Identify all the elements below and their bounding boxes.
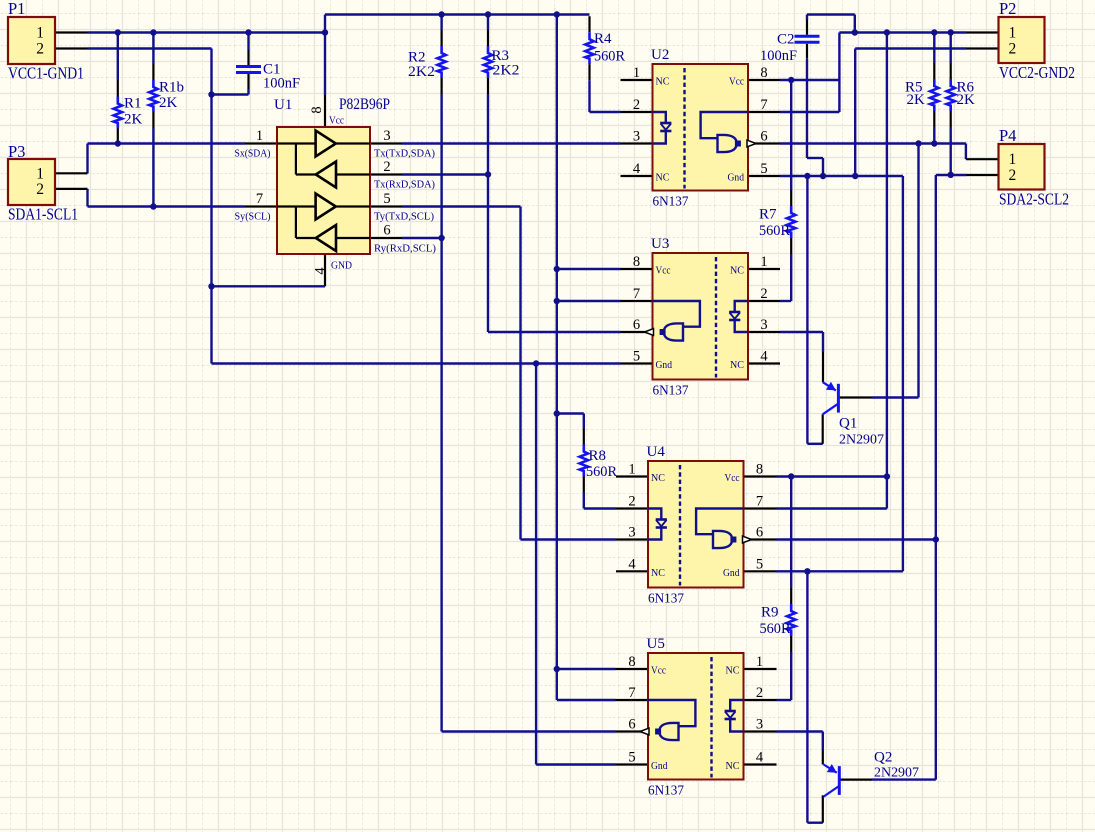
connector P2 — [999, 17, 1045, 63]
svg-text:2: 2 — [383, 159, 390, 175]
pin U5.3 stub — [745, 730, 777, 732]
wire U4.8 row — [777, 475, 887, 477]
wire U1.2 to R3 — [402, 173, 488, 175]
wire U1 pin1 row SDA1 — [88, 142, 246, 144]
pin Q2 collector stub — [822, 795, 824, 822]
junction — [554, 410, 560, 416]
wire GND2 spine upper — [806, 176, 808, 444]
junction — [788, 77, 794, 83]
capacitor C1 — [247, 50, 249, 65]
svg-text:2: 2 — [628, 494, 635, 510]
junction — [485, 11, 491, 17]
svg-text:VCC1-GND1: VCC1-GND1 — [8, 64, 84, 83]
wire R7 bottom to U3.2 — [790, 254, 792, 301]
gate in U3 — [653, 301, 700, 327]
svg-text:8: 8 — [760, 65, 767, 81]
pin U1.3 stub — [370, 142, 402, 144]
svg-text:2: 2 — [756, 685, 763, 701]
wire Q2 base link — [872, 778, 936, 780]
junction — [933, 536, 939, 542]
pin U1.5 stub — [370, 205, 402, 207]
svg-text:2K: 2K — [957, 92, 976, 108]
resistor R2 — [441, 30, 443, 46]
svg-text:Sx(SDA): Sx(SDA) — [235, 148, 271, 160]
svg-text:5: 5 — [628, 750, 635, 766]
ic U1 P82B96P body — [277, 127, 370, 254]
pin U5.2 stub — [745, 699, 777, 701]
wire U3.3 row to Q1 emitter — [780, 331, 823, 333]
wire SDA2 horizontal to P4 — [780, 142, 966, 144]
pin U2.7 stub — [748, 111, 780, 113]
wire to U5.7 row — [557, 699, 616, 701]
wire R8 top — [583, 414, 585, 429]
connector P4 — [999, 144, 1045, 190]
wire GND2 to U4.5 — [902, 176, 904, 571]
svg-text:4: 4 — [313, 267, 329, 275]
svg-text:2K2: 2K2 — [493, 63, 520, 79]
svg-text:2: 2 — [1009, 41, 1017, 58]
junction — [554, 298, 560, 304]
junction — [150, 203, 156, 209]
svg-text:Gnd: Gnd — [723, 567, 740, 579]
svg-text:6N137: 6N137 — [648, 592, 684, 607]
svg-text:4: 4 — [628, 557, 636, 573]
svg-text:5: 5 — [383, 191, 390, 207]
svg-text:1: 1 — [256, 128, 263, 144]
wire VCC2 long drop — [886, 33, 888, 509]
buffer C in U1 — [277, 205, 316, 207]
wire top VCC1 bus — [325, 13, 590, 15]
pin U1.2 stub — [370, 173, 402, 175]
svg-text:2: 2 — [760, 286, 767, 302]
svg-text:6N137: 6N137 — [653, 384, 689, 399]
pin U4.8 stub — [745, 475, 777, 477]
wire VCC2 drop to U2 — [838, 33, 840, 113]
wire GND2 drop — [854, 49, 856, 177]
pin U4.4 stub — [616, 570, 648, 572]
svg-text:3: 3 — [383, 128, 390, 144]
svg-text:R7: R7 — [759, 207, 777, 223]
svg-text:P4: P4 — [999, 126, 1016, 145]
svg-text:NC: NC — [656, 172, 670, 184]
pin U4.2 stub — [616, 507, 648, 509]
wire P3 pin2 riser — [86, 189, 88, 207]
led in U5 — [730, 700, 743, 711]
wire GND1 left vertical — [210, 49, 212, 364]
pin U4.5 stub — [745, 570, 777, 572]
pin U2.4 stub — [621, 175, 653, 177]
svg-text:Gnd: Gnd — [728, 172, 745, 184]
junction — [485, 171, 491, 177]
pin U5.5 stub — [616, 763, 649, 765]
svg-text:3: 3 — [633, 129, 640, 145]
svg-text:R1: R1 — [124, 96, 142, 112]
pin U5.4 stub — [745, 763, 777, 765]
svg-text:2K: 2K — [124, 112, 143, 128]
svg-text:560R: 560R — [586, 464, 617, 480]
pin U3.5 stub — [621, 362, 653, 364]
svg-text:1: 1 — [633, 65, 640, 81]
optocoupler U3 body — [653, 253, 749, 380]
wire P2.1 riser — [854, 15, 856, 33]
svg-text:C2: C2 — [777, 32, 795, 48]
wire SCL2 drop to Q2 base — [935, 175, 937, 780]
junction — [931, 140, 937, 146]
svg-text:6N137: 6N137 — [653, 195, 689, 210]
svg-text:Ty(TxD,SCL): Ty(TxD,SCL) — [374, 211, 434, 223]
wire U2.7 row — [780, 111, 839, 113]
separator dashed line U3 — [715, 257, 717, 378]
connector P3 — [8, 159, 55, 205]
led in U2 — [653, 112, 666, 123]
junction — [115, 140, 121, 146]
junction — [931, 29, 937, 35]
svg-text:6: 6 — [383, 223, 390, 239]
svg-text:U4: U4 — [647, 444, 666, 460]
svg-text:Vcc: Vcc — [329, 115, 344, 127]
junction — [533, 360, 539, 366]
pin U3.8 stub — [621, 268, 653, 270]
wire Q1 base link — [872, 396, 919, 398]
svg-text:Vcc: Vcc — [656, 265, 671, 277]
pin Q2 base stub — [839, 778, 872, 780]
resistor R4 — [588, 16, 590, 32]
pin U2.3 stub — [621, 142, 653, 144]
resistor R6 — [950, 63, 952, 79]
wire C1 column — [247, 33, 249, 51]
pin U2.6 stub — [748, 142, 780, 144]
junction — [852, 173, 858, 179]
svg-text:VCC2-GND2: VCC2-GND2 — [999, 63, 1075, 82]
wire U3.8 row — [557, 268, 621, 270]
open collector triangle U3 — [645, 329, 654, 336]
resistor R3 — [487, 30, 489, 46]
svg-text:1: 1 — [628, 462, 635, 478]
pin U1.1 stub — [245, 142, 277, 144]
junction — [948, 29, 954, 35]
svg-text:R9: R9 — [761, 605, 779, 621]
svg-text:U1: U1 — [274, 97, 292, 113]
open collector triangle U2 — [747, 140, 756, 147]
pin U2.1 stub — [621, 79, 653, 81]
svg-text:Tx(TxD,SDA): Tx(TxD,SDA) — [374, 148, 435, 160]
svg-text:5: 5 — [760, 161, 767, 177]
svg-text:2: 2 — [1009, 167, 1017, 184]
junction — [804, 568, 810, 574]
pin U5.6 stub — [616, 730, 649, 732]
wire U5.8 row — [557, 668, 616, 670]
pin U1.4 GND stub — [324, 254, 326, 286]
svg-text:1: 1 — [36, 165, 44, 182]
svg-text:NC: NC — [730, 265, 744, 277]
junction — [115, 29, 121, 35]
separator dashed line U4 — [679, 465, 681, 586]
wire U1.5 vertical to U4.3 — [519, 207, 521, 540]
led in U3 — [735, 301, 748, 312]
svg-text:SDA2-SCL2: SDA2-SCL2 — [999, 190, 1069, 209]
pin P1.2 stub — [55, 47, 88, 49]
junction — [245, 29, 251, 35]
svg-text:NC: NC — [726, 665, 740, 677]
svg-text:5: 5 — [756, 557, 763, 573]
svg-text:8: 8 — [633, 254, 640, 270]
pin P4.1 stub — [966, 158, 999, 160]
wire Q1 base riser — [917, 144, 919, 398]
svg-text:U5: U5 — [647, 636, 665, 652]
svg-text:P3: P3 — [8, 142, 25, 161]
pin U4.7 stub — [745, 507, 777, 509]
wire U1.6 to R2 column — [402, 237, 442, 239]
pin U2.5 stub — [748, 175, 780, 177]
junction — [820, 173, 826, 179]
wire GND1 rail — [212, 362, 621, 364]
wire R7 column — [790, 80, 792, 190]
gate in U2 — [701, 112, 748, 138]
pin P2.2 stub — [967, 47, 999, 49]
svg-text:1: 1 — [1009, 151, 1017, 168]
pin Q1 base stub — [838, 396, 872, 398]
resistor R6 column — [950, 33, 952, 64]
svg-text:6N137: 6N137 — [648, 784, 684, 799]
optocoupler U2 body — [653, 64, 749, 191]
svg-text:P82B96P: P82B96P — [339, 96, 390, 113]
junction — [438, 11, 444, 17]
svg-text:Q1: Q1 — [839, 416, 857, 432]
junction — [554, 11, 560, 17]
wire P4.1 jog — [965, 144, 967, 160]
wire U2.8 row — [780, 79, 839, 81]
svg-text:Gnd: Gnd — [656, 359, 673, 371]
resistor R5 — [933, 63, 935, 79]
svg-text:NC: NC — [730, 359, 744, 371]
svg-text:R1b: R1b — [159, 80, 184, 96]
junction — [852, 29, 858, 35]
wire P2.2 row GND2 — [855, 47, 966, 49]
separator dashed line U5 — [710, 657, 712, 778]
svg-text:2K: 2K — [159, 95, 178, 111]
pin U5.8 stub — [616, 668, 649, 670]
resistor R1 column — [117, 33, 119, 81]
pin P1.1 stub — [55, 31, 88, 33]
svg-text:8: 8 — [628, 654, 635, 670]
svg-text:4: 4 — [633, 161, 641, 177]
wire R3 to U3.6 row — [488, 331, 621, 333]
optocoupler U4 body — [648, 461, 744, 588]
gate in U5 — [648, 700, 695, 726]
wire C1 bottom link — [212, 93, 249, 95]
svg-text:8: 8 — [309, 106, 325, 113]
separator dashed line U2 — [683, 68, 685, 189]
svg-text:P1: P1 — [8, 0, 25, 18]
wire U1 GND link — [212, 285, 326, 287]
wire GND2 rail — [780, 175, 903, 177]
wire VCC1 long vertical — [556, 15, 558, 701]
svg-text:4: 4 — [760, 349, 768, 365]
wire C2 column top — [806, 15, 808, 21]
pin U5.1 stub — [745, 668, 777, 670]
svg-text:R8: R8 — [589, 448, 607, 464]
svg-text:Sy(SCL): Sy(SCL) — [235, 211, 271, 223]
resistor R1b — [152, 64, 154, 80]
wire U1 pin7 row SCL1 — [88, 205, 246, 207]
svg-text:2N2907: 2N2907 — [874, 766, 919, 781]
pin Q2 emitter stub — [822, 750, 824, 765]
svg-text:Vcc: Vcc — [725, 472, 740, 484]
capacitor C2 — [806, 20, 808, 35]
svg-text:NC: NC — [651, 472, 665, 484]
wire R4 bottom — [588, 80, 590, 112]
svg-text:2N2907: 2N2907 — [839, 433, 884, 448]
svg-text:1: 1 — [1009, 25, 1017, 42]
wire to U5.6 row — [442, 730, 616, 732]
pin U3.2 stub — [748, 300, 780, 302]
svg-text:1: 1 — [760, 254, 767, 270]
pin U3.1 stub — [748, 268, 780, 270]
svg-text:7: 7 — [756, 494, 763, 510]
resistor R1b column — [152, 33, 154, 65]
junction — [438, 235, 444, 241]
pin U1.6 stub — [370, 237, 402, 239]
svg-text:2K2: 2K2 — [408, 64, 435, 80]
svg-text:6: 6 — [633, 317, 640, 333]
buffer B in U1 — [316, 162, 336, 188]
junction — [948, 172, 954, 178]
pin U3.3 stub — [748, 331, 780, 333]
junction — [150, 29, 156, 35]
transistor Q2 2N2907 — [838, 766, 841, 795]
wire P3 pin1 riser — [86, 144, 88, 174]
pin P4.2 stub — [967, 174, 999, 176]
svg-text:7: 7 — [760, 97, 767, 113]
pin Q1 emitter stub — [822, 352, 824, 382]
svg-text:U2: U2 — [651, 47, 669, 63]
junction — [788, 473, 794, 479]
wire C2 jog to GND2 rail — [807, 157, 823, 159]
svg-text:6: 6 — [628, 717, 635, 733]
pin U5.7 stub — [616, 699, 649, 701]
wire R9 bottom to U5.2 — [790, 652, 792, 700]
pin Q1 collector stub — [822, 414, 824, 444]
svg-text:NC: NC — [651, 567, 665, 579]
wire P1 pin2 row GND1 — [88, 47, 212, 49]
svg-text:P2: P2 — [999, 0, 1016, 18]
transistor Q1 2N2907 — [837, 384, 840, 413]
svg-text:560R: 560R — [759, 223, 790, 239]
wire top right C2 to P2 — [807, 13, 855, 15]
pin U1.7 stub — [245, 205, 277, 207]
svg-text:3: 3 — [760, 317, 767, 333]
resistor R8 — [583, 429, 585, 445]
wire R9 column — [790, 477, 792, 589]
wire P1 pin1 row VCC1 — [88, 31, 326, 33]
resistor R3 column — [487, 15, 489, 31]
wire R8 bottom — [583, 493, 585, 509]
junction — [322, 29, 328, 35]
wire U3.7 row — [557, 300, 621, 302]
junction — [884, 473, 890, 479]
wire R8 link — [557, 412, 584, 414]
svg-text:6: 6 — [760, 129, 767, 145]
svg-text:7: 7 — [256, 191, 263, 207]
svg-text:GND: GND — [331, 260, 352, 272]
svg-text:7: 7 — [633, 286, 640, 302]
wire U5.3 row to Q2 emitter — [777, 730, 823, 732]
svg-text:2K: 2K — [907, 92, 926, 108]
optocoupler U5 body — [648, 653, 744, 780]
svg-text:Vcc: Vcc — [729, 76, 744, 88]
svg-text:Vcc: Vcc — [651, 665, 666, 677]
pin P3.2 stub — [55, 188, 88, 190]
svg-text:Tx(RxD,SDA): Tx(RxD,SDA) — [374, 179, 435, 191]
wire C2 column bottom — [806, 59, 808, 158]
junction — [915, 140, 921, 146]
wire GND2 spine lower — [806, 571, 808, 822]
svg-text:2: 2 — [633, 97, 640, 113]
pin U3.4 stub — [748, 362, 780, 364]
svg-text:1: 1 — [36, 25, 44, 42]
pin U2.8 stub — [748, 79, 780, 81]
resistor R1 — [117, 81, 119, 97]
resistor R9 — [790, 588, 792, 604]
pin U3.6 stub — [621, 331, 653, 333]
pin P3.1 stub — [55, 172, 88, 174]
pin U1.8 Vcc stub — [324, 95, 326, 127]
svg-text:2: 2 — [36, 181, 44, 198]
pin U3.7 stub — [621, 300, 653, 302]
svg-text:3: 3 — [628, 525, 635, 541]
junction — [554, 666, 560, 672]
junction — [884, 29, 890, 35]
wire GND1 to U5.5 — [535, 364, 537, 765]
resistor R2 column — [440, 15, 442, 31]
svg-text:Gnd: Gnd — [651, 760, 668, 772]
svg-text:100nF: 100nF — [263, 76, 300, 92]
svg-text:Ry(RxD,SCL): Ry(RxD,SCL) — [374, 243, 436, 255]
led in U4 — [648, 509, 661, 520]
svg-text:7: 7 — [628, 685, 635, 701]
svg-text:R4: R4 — [594, 31, 612, 47]
wire U1 Vcc riser — [324, 15, 326, 96]
wire U4.6 row to SCL2 — [777, 538, 936, 540]
gate in U4 — [696, 509, 743, 535]
resistor R7 — [790, 190, 792, 206]
junction — [208, 91, 214, 97]
buffer A in U1 — [277, 142, 316, 144]
wire SDA main horizontal — [402, 142, 621, 144]
svg-text:NC: NC — [656, 76, 670, 88]
pin U2.2 stub — [621, 111, 653, 113]
wire P4.2 row SCL2 — [936, 174, 967, 176]
svg-text:U3: U3 — [651, 236, 669, 252]
junction — [208, 283, 214, 289]
svg-text:SDA1-SCL1: SDA1-SCL1 — [8, 205, 78, 224]
svg-text:100nF: 100nF — [760, 48, 797, 64]
buffer D in U1 — [316, 225, 336, 251]
svg-text:NC: NC — [726, 760, 740, 772]
svg-text:560R: 560R — [760, 621, 791, 637]
svg-text:1: 1 — [756, 654, 763, 670]
svg-text:Q2: Q2 — [874, 750, 892, 766]
pin U4.1 stub — [616, 475, 648, 477]
svg-text:8: 8 — [756, 462, 763, 478]
wire U4.7 row — [777, 507, 887, 509]
junction — [804, 173, 810, 179]
open collector triangle U5 — [640, 728, 649, 735]
wire U1.5 row — [402, 205, 521, 207]
pin U4.6 stub — [745, 538, 777, 540]
resistor R5 column — [933, 33, 935, 64]
svg-text:5: 5 — [633, 349, 640, 365]
